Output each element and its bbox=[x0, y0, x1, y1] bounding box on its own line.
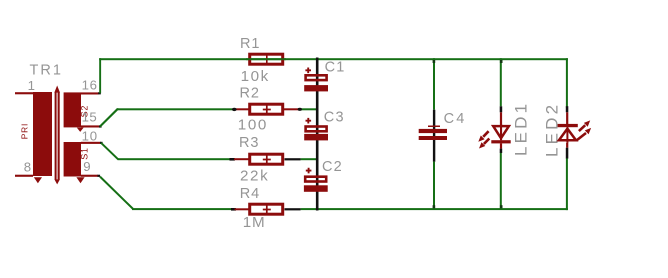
capacitor C1 plus mark bbox=[305, 68, 311, 74]
svg-text:C1: C1 bbox=[325, 60, 346, 76]
TR1 core arrow bar bbox=[54, 86, 60, 185]
svg-text:LED2: LED2 bbox=[542, 102, 561, 157]
svg-text:C4: C4 bbox=[444, 111, 467, 127]
junction dot C4 bottom bbox=[433, 205, 436, 208]
TR1 pin 8 lead bbox=[15, 175, 33, 177]
TR1 primary polarity arrow bbox=[34, 177, 42, 183]
LED2 bottom pin lead black tip bbox=[566, 148, 569, 159]
capacitor C3 top plate bbox=[306, 127, 327, 132]
LED1 top pin lead bbox=[500, 112, 502, 125]
capacitor C4 bottom plate bbox=[419, 136, 447, 140]
wire net N1 overlay across R1 bbox=[246, 58, 286, 60]
svg-text:9: 9 bbox=[83, 159, 90, 174]
LED2 cathode bar bbox=[558, 124, 578, 127]
TR1 core line left bbox=[55, 93, 57, 180]
junction dot R2 pin 2 bbox=[298, 108, 302, 111]
wire C4 column upper green bbox=[433, 58, 435, 109]
TR1 pin 15 lead bbox=[81, 125, 100, 127]
wire net N4 bottom rail left of R4 bbox=[132, 208, 232, 210]
junction TR1 pin 16 to wire bbox=[98, 92, 101, 94]
junction dot R4 pin 1 bbox=[231, 208, 236, 211]
svg-text:100: 100 bbox=[238, 117, 268, 134]
resistor R4 origin cross bbox=[263, 206, 271, 214]
svg-text:TR1: TR1 bbox=[30, 63, 63, 79]
capacitor C1 bottom plate bbox=[304, 85, 328, 91]
TR1 secondary winding S2 bbox=[64, 92, 81, 127]
junction TR1 pin 9 to wire bbox=[98, 175, 101, 177]
LED1 light arrow 2 bbox=[484, 139, 489, 144]
svg-text:PRI: PRI bbox=[20, 123, 30, 139]
junction dot C4 top bbox=[433, 60, 436, 63]
LED2 anode line bbox=[566, 127, 568, 143]
TR1 core line right bbox=[58, 93, 60, 180]
svg-text:R2: R2 bbox=[240, 86, 260, 102]
wire net N2 horizontal to R2 bbox=[117, 108, 233, 110]
TR1 winding S2 polarity arrow bbox=[77, 128, 84, 132]
wire net N4 diagonal from TR1 pin 9 bbox=[100, 177, 133, 209]
capacitor C4 lead (black) bbox=[433, 110, 435, 162]
wire net N2 segment R2 to C3 bbox=[301, 108, 317, 110]
TR1 pin 16 lead bbox=[81, 92, 99, 94]
TR1 winding S1 polarity arrow bbox=[76, 177, 84, 183]
svg-text:8: 8 bbox=[24, 159, 31, 174]
svg-text:C2: C2 bbox=[322, 159, 343, 175]
svg-text:22k: 22k bbox=[240, 167, 269, 184]
wire net N3 diagonal from TR1 pin 10 bbox=[101, 143, 118, 159]
resistor R4 pin 1 lead bbox=[235, 208, 250, 210]
junction TR1 pin 15 to wire bbox=[99, 125, 102, 127]
capacitor C4 top plate bbox=[419, 129, 447, 133]
resistor R2 pin 1 lead bbox=[234, 108, 249, 110]
resistor R1 body bbox=[250, 54, 283, 64]
svg-text:10k: 10k bbox=[241, 68, 270, 85]
LED1 top pin lead black tip bbox=[500, 106, 503, 112]
capacitor C2 bottom plate bbox=[304, 185, 328, 192]
LED1 bottom pin lead bbox=[500, 143, 502, 148]
svg-text:C3: C3 bbox=[324, 110, 345, 126]
svg-text:15: 15 bbox=[82, 110, 98, 125]
resistor R1 origin cross bbox=[266, 55, 268, 64]
LED2 bottom pin lead bbox=[566, 143, 568, 148]
resistor R3 pin 1 lead bbox=[234, 158, 249, 160]
wire net N2 diagonal from TR1 pin 15 bbox=[100, 108, 119, 125]
TR1 pin 1 lead bbox=[15, 92, 33, 94]
LED2 top pin lead black tip bbox=[566, 106, 569, 112]
resistor R3 pin 2 lead (black) bbox=[285, 158, 301, 160]
svg-text:R3: R3 bbox=[239, 135, 259, 151]
junction dot LED1 bottom bbox=[500, 205, 503, 208]
wire LED1 column upper green bbox=[500, 58, 502, 106]
LED1 anode line bbox=[500, 124, 502, 140]
junction dot R2 pin 1 bbox=[232, 108, 237, 111]
wire C4 column lower green bbox=[433, 162, 435, 210]
capacitor C1 top plate bbox=[306, 75, 327, 80]
capacitor chain lead (black vertical) bbox=[316, 58, 319, 211]
svg-text:1M: 1M bbox=[243, 214, 266, 231]
resistor R2 origin cross bbox=[263, 106, 271, 114]
svg-text:10: 10 bbox=[82, 128, 98, 143]
resistor R2 pin 2 lead bbox=[284, 108, 299, 110]
LED1 bottom pin lead black tip bbox=[500, 149, 503, 153]
resistor R3 origin cross bbox=[263, 156, 271, 164]
wire net N4 bottom rail right of R4 bbox=[301, 208, 568, 210]
svg-text:S1: S1 bbox=[80, 147, 90, 160]
capacitor C4 origin tick bbox=[428, 126, 440, 128]
svg-text:R1: R1 bbox=[240, 36, 260, 52]
LED2 triangle bbox=[559, 129, 576, 141]
wire LED2 column upper green (right rail) bbox=[566, 58, 568, 107]
svg-text:1: 1 bbox=[28, 78, 35, 93]
svg-text:LED1: LED1 bbox=[512, 101, 531, 156]
junction dot LED1 top bbox=[500, 60, 503, 63]
TR1 secondary winding S1 bbox=[64, 142, 81, 177]
resistor R3 body bbox=[250, 154, 283, 164]
svg-text:R4: R4 bbox=[240, 186, 260, 202]
resistor R4 pin 2 lead (black) bbox=[285, 208, 301, 210]
LED2 light arrow 2 bbox=[577, 133, 586, 140]
LED1 cathode bar bbox=[491, 140, 510, 143]
svg-text:16: 16 bbox=[82, 78, 98, 93]
resistor R4 body bbox=[250, 204, 283, 214]
wire net N1 top rail bbox=[99, 58, 568, 60]
capacitor C3 bottom plate bbox=[304, 134, 328, 141]
wire net N3 segment R3 to C3/C2 node bbox=[301, 158, 317, 160]
junction dot R3 pin 1 bbox=[230, 158, 235, 161]
LED1 triangle bbox=[493, 126, 509, 138]
wire net N1 vertical from TR1 pin 16 bbox=[99, 58, 101, 93]
wire net N3 horizontal to R3 bbox=[118, 158, 231, 160]
junction TR1 pin 10 to wire bbox=[100, 142, 103, 144]
capacitor C3 plus mark bbox=[306, 118, 312, 124]
capacitor C2 plus mark bbox=[306, 168, 312, 174]
TR1 pin 9 lead bbox=[81, 175, 98, 177]
LED1 light arrow 1 bbox=[483, 131, 488, 137]
transformer TR1 primary winding bbox=[33, 92, 52, 176]
TR1 pin 10 lead bbox=[81, 142, 101, 144]
LED2 light arrow 1 bbox=[579, 125, 585, 131]
wire LED1 column lower green bbox=[500, 153, 502, 209]
LED2 top pin lead bbox=[566, 112, 568, 124]
resistor R2 body bbox=[250, 104, 283, 114]
capacitor C2 top plate bbox=[305, 177, 326, 182]
wire LED2 column lower green (right rail) bbox=[566, 158, 568, 210]
